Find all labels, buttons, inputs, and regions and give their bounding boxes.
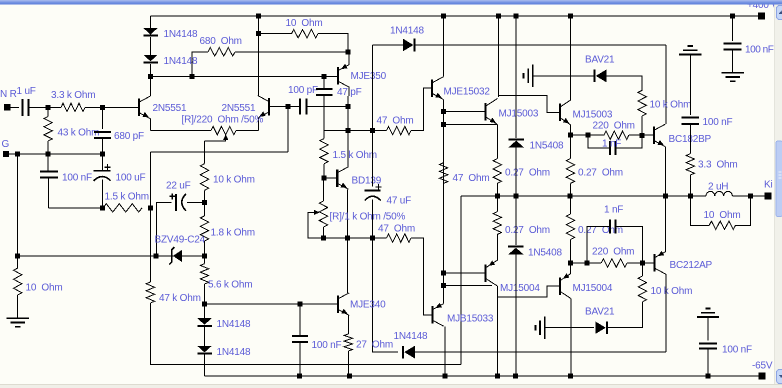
- wire Q11 emit col: [496, 234, 498, 260]
- wire 3.3 to rail: [689, 175, 691, 196]
- svg-text:1N4148: 1N4148: [217, 319, 251, 330]
- resistor R11 47 Ohm: [387, 126, 412, 134]
- wire to 10 Ohm: [17, 256, 19, 268]
- diode D3 1N4148: [197, 318, 212, 325]
- wire 1nF bracket: [588, 135, 610, 148]
- wire diode row y352 right: [411, 351, 666, 353]
- wire L1 parallel branch: [691, 196, 710, 225]
- wire 1nF2 bracket: [587, 227, 610, 264]
- svg-text:47 k Ohm: 47 k Ohm: [159, 293, 201, 304]
- wire pot2 bottom: [323, 227, 325, 238]
- wire Q3 collector down: [348, 87, 350, 96]
- node 22uF right dot: [202, 200, 207, 205]
- node row130 dots: [346, 128, 351, 133]
- node Kl output terminal: [765, 193, 772, 200]
- transistor Q4 BD139: [336, 169, 338, 187]
- svg-text:100 nF: 100 nF: [745, 45, 774, 56]
- diode D7 1N4148: [404, 346, 415, 359]
- wire R11 to MJE15032 base: [411, 88, 432, 131]
- wire Q13 coll down: [665, 274, 667, 352]
- diode D1 1N4148: [143, 28, 158, 35]
- wire -65V bottom rail: [205, 375, 763, 377]
- wire 5.6k to VAS base node: [204, 284, 206, 318]
- wire R21 up: [736, 196, 751, 225]
- node input terminal N R: [4, 104, 11, 111]
- capacitor C10 1 nF: [609, 141, 611, 155]
- svg-text:100 nF: 100 nF: [722, 345, 752, 356]
- svg-text:10 k Ohm: 10 k Ohm: [651, 286, 693, 297]
- svg-text:100 nF: 100 nF: [62, 172, 92, 183]
- wire bav1 left: [533, 75, 595, 77]
- node bias row dot 47pF: [322, 74, 327, 79]
- wire emit row 124: [444, 124, 498, 126]
- node 10ohm row dot: [256, 31, 261, 36]
- resistor R14 27 Ohm: [344, 334, 352, 351]
- resistor R19 10 k Ohm: [638, 90, 646, 116]
- capacitor C13 1 nF: [609, 220, 611, 234]
- transistor Q11 MJ15004: [484, 264, 486, 282]
- svg-text:680 Ohm: 680 Ohm: [200, 36, 242, 47]
- wire 5408-1 col bot: [515, 147, 517, 196]
- node row238 dots: [321, 236, 326, 241]
- svg-text:G: G: [2, 139, 10, 150]
- capacitor C9 47 uF polarized: [365, 190, 381, 192]
- wire BD emit down: [347, 189, 349, 238]
- node row135 dot 1nF: [586, 133, 591, 138]
- wire 47uF top: [372, 131, 374, 187]
- capacitor C14 100 nF: [699, 343, 717, 345]
- resistor R5 47 k Ohm: [146, 282, 154, 303]
- node VAS base row dot: [202, 302, 207, 307]
- top toolbar strip: [0, 0, 782, 1]
- wire 43k column: [47, 107, 49, 116]
- plus C9: [376, 186, 382, 188]
- svg-text:47 Ohm: 47 Ohm: [453, 173, 490, 184]
- node zener row dot 22uF: [154, 253, 159, 258]
- wire input to C1: [10, 106, 19, 108]
- wire Q9 emit down: [664, 147, 666, 196]
- svg-text:100 nF: 100 nF: [312, 340, 342, 351]
- wire Q1e to pot: [150, 130, 211, 132]
- wire 220 to BCbase: [629, 134, 654, 136]
- svg-text:MJ15004: MJ15004: [500, 283, 540, 294]
- wire D4 to -65 rail: [204, 355, 206, 377]
- wire ground bus: [9, 153, 102, 155]
- resistor R21 10 Ohm: [709, 221, 735, 229]
- svg-text:27 Ohm: 27 Ohm: [356, 339, 393, 350]
- scrollbar up button: [777, 6, 782, 20]
- svg-text:10 k Ohm: 10 k Ohm: [213, 174, 255, 185]
- wire BC182 coll col: [665, 45, 667, 124]
- resistor R4 1.5 k Ohm: [103, 204, 142, 212]
- svg-text:[R]/1 k Ohm /50%: [R]/1 k Ohm /50%: [330, 211, 406, 222]
- wire 680 left col: [192, 52, 208, 76]
- svg-text:47 uF: 47 uF: [387, 196, 412, 207]
- diode D6 1N4148: [403, 39, 414, 52]
- resistor R3 10 Ohm: [14, 268, 22, 295]
- svg-text:47 pF: 47 pF: [337, 87, 362, 98]
- svg-text:MJ15004: MJ15004: [573, 283, 613, 294]
- wire Q1base col 680pF: [101, 107, 103, 128]
- svg-text:2N5551: 2N5551: [222, 103, 256, 114]
- svg-text:BD139: BD139: [352, 175, 382, 186]
- node Q2 base dot: [285, 104, 290, 109]
- pot P1 wiper: [223, 134, 228, 140]
- wire BD base: [324, 177, 337, 179]
- wire C11 to 3.3: [689, 124, 691, 154]
- wire base row 111: [444, 111, 486, 113]
- wire R22 to rail: [496, 196, 498, 212]
- plus C5: [169, 195, 175, 197]
- wire Q13 emit up: [664, 196, 666, 252]
- resistor R9 1.8 k Ohm: [200, 216, 208, 241]
- wire Q2 collector col: [258, 16, 260, 96]
- resistor R16 0.27 Ohm: [493, 159, 501, 184]
- svg-text:0.27 Ohm: 0.27 Ohm: [505, 167, 550, 178]
- wire bav2 left: [545, 327, 595, 329]
- svg-text:BZV49-C24: BZV49-C24: [155, 235, 206, 246]
- wire Q1 emitter: [149, 119, 151, 131]
- wire 5408-1 col top: [515, 16, 517, 138]
- transistor Q2 2N5551: [268, 98, 270, 116]
- transistor Q13 BC212AP: [653, 254, 655, 272]
- wire C1 to R1: [29, 106, 61, 108]
- svg-text:10 Ohm: 10 Ohm: [26, 282, 63, 293]
- diode D4 1N4148: [197, 346, 212, 353]
- svg-text:1.5 k Ohm: 1.5 k Ohm: [333, 150, 377, 161]
- capacitor C12 100 nF: [724, 43, 742, 45]
- resistor R8 10 k Ohm: [200, 164, 208, 191]
- svg-text:0.27 Ohm: 0.27 Ohm: [505, 225, 550, 236]
- node bias node dot: [148, 74, 153, 79]
- svg-text:47 Ohm: 47 Ohm: [377, 116, 414, 127]
- wire Q10 emit up: [443, 273, 445, 303]
- wire Q6 emit col: [443, 100, 445, 286]
- resistor R18 220 Ohm: [604, 131, 629, 139]
- wire diode row y352: [373, 239, 398, 353]
- wire VAS base row: [205, 303, 338, 305]
- svg-text:1N5408: 1N5408: [530, 140, 564, 151]
- node Q3 coll dot: [346, 104, 351, 109]
- wire x373 col: [372, 45, 374, 131]
- svg-text:10 Ohm: 10 Ohm: [286, 18, 323, 29]
- wire Q12 coll down: [570, 298, 572, 376]
- plus C3: [105, 166, 111, 168]
- svg-text:0.27 Ohm: 0.27 Ohm: [578, 167, 623, 178]
- wire R23 rail: [569, 196, 571, 214]
- resistor R15 47 Ohm: [439, 163, 447, 184]
- wire Q2 emitter: [258, 118, 260, 131]
- node +400V rail junction dots: [256, 14, 261, 19]
- resistor R1 3.3 k Ohm: [61, 103, 85, 111]
- svg-text:3.3 k Ohm: 3.3 k Ohm: [51, 90, 95, 101]
- node FB node dot: [148, 205, 153, 210]
- resistor R12 1.5 k Ohm: [320, 139, 328, 164]
- svg-text:BC212AP: BC212AP: [670, 260, 713, 271]
- wire wiper col to 10k: [204, 141, 206, 164]
- svg-text:10 Ohm: 10 Ohm: [704, 210, 741, 221]
- wire Q12 emit up: [569, 263, 571, 274]
- wire 22uF to 10k col: [187, 201, 204, 203]
- node terminal G: [3, 151, 9, 157]
- transistor Q10 MJB15033: [431, 306, 433, 324]
- resistor R24 220 Ohm: [601, 259, 627, 267]
- diode D9 BAV21: [596, 70, 607, 83]
- wire fbcol to 47k: [149, 256, 151, 282]
- wire 47uF bottom: [372, 200, 374, 239]
- node FB divider dot: [100, 206, 105, 211]
- node bias row dot 680: [190, 74, 195, 79]
- svg-text:1 nF: 1 nF: [604, 204, 623, 215]
- wire C14 to rail: [707, 349, 709, 377]
- svg-text:10 k Ohm: 10 k Ohm: [650, 100, 692, 111]
- transistor Q6 MJE15032: [431, 79, 433, 97]
- wire C12 to gnd: [732, 49, 734, 73]
- wire D1 to D2: [150, 37, 152, 55]
- wire 10k19 to base: [641, 116, 643, 135]
- wire row263: [570, 262, 601, 264]
- transistor Q3 MJE350: [337, 67, 339, 85]
- wire gndbus to C3: [101, 154, 103, 171]
- resistor R13 47 Ohm: [387, 234, 412, 242]
- wire C7 to Q3coll: [306, 106, 347, 108]
- transistor Q12 MJ15004 2: [559, 277, 561, 295]
- svg-text:1N4148: 1N4148: [390, 25, 424, 36]
- svg-text:MJE15032: MJE15032: [444, 86, 491, 97]
- svg-text:Ki: Ki: [764, 179, 773, 190]
- svg-text:MJ15003: MJ15003: [499, 108, 539, 119]
- resistor P2 [R]/1k pot: [319, 201, 327, 227]
- node 100nF2 dot: [297, 302, 302, 307]
- svg-text:1.8 k Ohm: 1.8 k Ohm: [211, 227, 255, 238]
- node BC182 base dot: [640, 133, 645, 138]
- wire feedback row: [150, 151, 287, 153]
- node Q10 emit dots: [441, 271, 446, 276]
- wire 680 to jnode: [235, 51, 348, 53]
- node base node dot A: [46, 105, 51, 110]
- resistor R22 0.27 Ohm: [493, 212, 501, 235]
- resistor P1 [R]/220 pot: [211, 126, 236, 134]
- node -65V rail dots: [297, 374, 302, 379]
- capacitor C11 100 nF: [682, 117, 700, 119]
- wire 27 to rail: [347, 351, 349, 376]
- wire Q5 coll up: [347, 238, 349, 293]
- resistor R6 680 Ohm: [208, 48, 235, 56]
- diode D2 1N4148: [143, 55, 158, 62]
- svg-text:N R: N R: [0, 89, 17, 100]
- wire R13 to MJB base: [411, 238, 432, 315]
- wire pot2 top: [323, 178, 325, 201]
- node output rail dots: [495, 194, 500, 199]
- wire bav1 right: [606, 76, 642, 90]
- svg-text:1N4148: 1N4148: [164, 29, 198, 40]
- wire rail corner to D1: [150, 16, 152, 28]
- svg-text:220 Ohm: 220 Ohm: [593, 120, 635, 131]
- ground top left-facing: [532, 65, 534, 87]
- wire output rail: [461, 195, 706, 197]
- wire 43k to gnd wire: [47, 141, 49, 154]
- resistor R10 5.6 k Ohm: [200, 264, 208, 284]
- node Q1 base node dot: [100, 105, 105, 110]
- node row263 dot 1nF: [585, 261, 590, 266]
- transistor Q9 BC182BP: [653, 127, 655, 144]
- wire Q2base to C7: [291, 106, 300, 108]
- wire 5408-2 top: [515, 196, 517, 245]
- svg-text:1N4148: 1N4148: [394, 331, 428, 342]
- wire row135: [570, 134, 604, 136]
- resistor R23 0.27 Ohm: [566, 214, 574, 240]
- resistor R17 0.27 Ohm: [566, 159, 574, 184]
- wire R16 to out rail: [496, 183, 498, 196]
- wire 10 Ohm to ground: [17, 295, 19, 318]
- transistor Q7 MJ15003: [484, 103, 486, 121]
- right scrollbar track: [775, 5, 782, 386]
- wire +400V top rail: [151, 15, 762, 17]
- wire d6 row right: [416, 44, 666, 46]
- wire R1 to Q1 base: [85, 106, 139, 108]
- node gnd bus dots: [15, 152, 20, 157]
- bottom status strip: [0, 385, 782, 388]
- wire gnd drop left: [17, 154, 19, 256]
- resistor R7 10 Ohm top: [292, 30, 319, 38]
- wire Q8 coll up: [569, 16, 571, 100]
- node BD139 base dot: [322, 176, 327, 181]
- wire Q11coll tap: [497, 286, 548, 297]
- wire 220b to BC212 base: [627, 262, 655, 264]
- wire gndup to C11: [689, 54, 691, 114]
- wire Q10 coll down: [444, 326, 446, 376]
- wire bias row y76: [150, 75, 338, 77]
- svg-text:BAV21: BAV21: [585, 55, 615, 66]
- node FB gnd dot: [15, 253, 20, 258]
- svg-text:47 Ohm: 47 Ohm: [378, 223, 415, 234]
- svg-text:2 uH: 2 uH: [708, 182, 728, 193]
- diode D8 1N5408: [508, 141, 524, 148]
- ground inv bottom right: [697, 316, 719, 318]
- inductor L1 2 uH: [706, 191, 732, 196]
- wire feedback to Q2 base: [287, 107, 289, 152]
- ground top right: [721, 72, 743, 74]
- wire d6 row left: [373, 44, 403, 46]
- ground bottom left-facing: [544, 317, 546, 339]
- wire Q7coll tap: [499, 96, 549, 113]
- svg-text:-65V: -65V: [752, 361, 773, 372]
- wire 10k25 down: [607, 302, 642, 328]
- transistor Q1 2N5551: [138, 99, 140, 117]
- wire Q7 coll up: [498, 16, 500, 97]
- resistor R2 43 k Ohm: [44, 117, 52, 142]
- wire gnd bus to C2: [47, 154, 49, 171]
- diode D5 BZV49-C24 zener: [173, 250, 182, 262]
- wire Q7 emit col: [496, 125, 498, 159]
- wire output-col x461: [460, 196, 462, 364]
- wire 10ohm to corner: [318, 34, 348, 52]
- scrollbar thumb: [776, 141, 782, 217]
- node row263 left dot: [568, 261, 573, 266]
- svg-text:100 pF: 100 pF: [288, 85, 318, 96]
- node +400V terminal: [758, 13, 765, 20]
- wire 47pF up: [323, 76, 325, 89]
- svg-text:MJE350: MJE350: [351, 71, 387, 82]
- capacitor C8 47 pF: [316, 88, 333, 90]
- wire C6 up: [299, 304, 301, 336]
- capacitor C5 22 uF polarized: [175, 194, 177, 211]
- node BC212 base dot: [640, 260, 645, 265]
- wire Q3 emitter up: [348, 52, 350, 65]
- resistor R20 3.3 Ohm: [686, 154, 694, 175]
- svg-text:100 uF: 100 uF: [116, 172, 146, 183]
- wire pot to Q2e: [236, 130, 259, 132]
- node Q6 emit dots: [441, 109, 446, 114]
- capacitor C6 100 nF: [292, 335, 308, 337]
- node -65V terminal: [759, 373, 766, 380]
- svg-text:BAV21: BAV21: [585, 306, 615, 317]
- node driver emit dot: [568, 133, 573, 138]
- svg-text:220 Ohm: 220 Ohm: [592, 247, 634, 258]
- wire R17 to out rail: [569, 183, 571, 196]
- wire Q11 coll down: [496, 286, 498, 376]
- capacitor C7 100 pF: [299, 99, 301, 115]
- wire 10ohm row: [259, 33, 292, 35]
- wire 1.8k to zener row: [204, 241, 206, 264]
- wire emit row 285: [444, 285, 492, 287]
- wire Q6 coll up: [443, 16, 445, 77]
- svg-text:100 nF: 100 nF: [703, 117, 733, 128]
- svg-text:43 k Ohm: 43 k Ohm: [58, 128, 100, 139]
- svg-text:1N4148: 1N4148: [217, 347, 251, 358]
- svg-text:[R]/220 Ohm /50%: [R]/220 Ohm /50%: [182, 114, 264, 125]
- wire gnd to C14: [707, 317, 709, 341]
- wire 47pF down: [323, 95, 325, 131]
- svg-text:680 pF: 680 pF: [114, 131, 144, 142]
- wire bias rail y364: [150, 303, 461, 364]
- svg-text:1.5 k Ohm: 1.5 k Ohm: [105, 192, 149, 203]
- svg-text:2N5551: 2N5551: [153, 103, 187, 114]
- svg-text:MJE340: MJE340: [350, 300, 386, 311]
- wire R23 to row263: [569, 240, 571, 264]
- wire MJ4-2 base: [547, 285, 560, 287]
- wire D2 to bias node: [150, 64, 152, 77]
- scrollbar down button: [777, 370, 782, 384]
- node zener row dot right: [202, 253, 207, 258]
- wire Q1 collector col: [149, 76, 151, 96]
- wire 1.5k2 to BD base: [323, 164, 325, 178]
- wire Q8 emit col: [569, 125, 571, 159]
- wire C6 down: [299, 342, 301, 376]
- capacitor C2 100 nF: [40, 170, 58, 172]
- wire base row 273: [444, 272, 486, 274]
- wire row238: [308, 237, 387, 239]
- pot P2 wiper: [314, 210, 320, 215]
- wire base to 10k25: [641, 263, 643, 276]
- wire BD coll up: [347, 131, 349, 167]
- wire 22uF bracket: [157, 202, 172, 256]
- svg-text:22 uF: 22 uF: [166, 180, 191, 191]
- capacitor C3 100 uF polarized: [94, 170, 111, 172]
- wire 1.5k2 bracket: [324, 130, 348, 132]
- transistor Q5 MJE340: [337, 295, 339, 313]
- wire Q5 emit down: [347, 315, 349, 334]
- capacitor C1 1 uF: [22, 99, 24, 116]
- wire MJ2 base: [547, 111, 560, 113]
- svg-text:1 uF: 1 uF: [17, 86, 36, 97]
- ground inv top right: [679, 53, 701, 55]
- ground main: [7, 317, 29, 319]
- diode D11 BAV21: [595, 321, 606, 334]
- wire C12 drop: [732, 16, 734, 41]
- svg-text:5.6 k Ohm: 5.6 k Ohm: [208, 280, 252, 291]
- wire 680pF to gnd bus: [101, 138, 103, 154]
